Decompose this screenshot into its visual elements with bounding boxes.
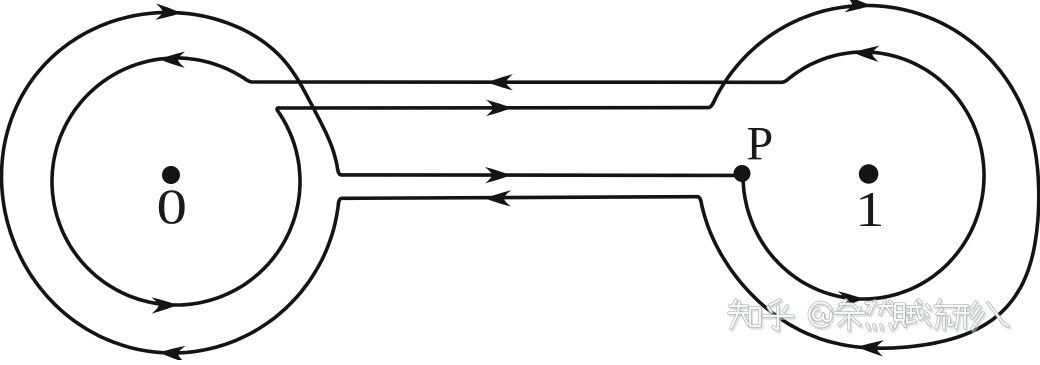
wire second line rightward — [279, 102, 714, 108]
wire outer loop around 1 — [697, 6, 1039, 349]
arrow on line1 leftward — [487, 74, 513, 90]
wire inner loop around 1 starting at P — [743, 52, 984, 299]
wire outer loop around 0 — [2, 13, 342, 354]
node P dot — [734, 165, 751, 182]
arrow on line3 rightward — [485, 167, 511, 183]
label 0 — [156, 179, 187, 235]
svg-text:1: 1 — [855, 181, 885, 237]
arrow outer-left bottom leftward — [159, 344, 186, 362]
svg-text:0: 0 — [156, 179, 187, 235]
arrow on line4 leftward — [485, 190, 511, 206]
label 1 — [855, 181, 885, 237]
wire inner loop around 0 — [52, 58, 300, 305]
arrow inner-left bottom rightward — [151, 297, 177, 314]
arrow on line2 rightward — [486, 100, 512, 116]
wire top return line leftward — [246, 79, 782, 82]
wire lower return line leftward — [338, 197, 697, 205]
arrow outer-left top rightward — [155, 3, 182, 21]
node 1 dot — [859, 164, 879, 184]
arrow outer-right bottom leftward — [857, 339, 884, 357]
watermark Zhihu @ user — [729, 300, 1010, 332]
wire line into P rightward — [341, 173, 743, 177]
node 0 dot — [162, 166, 180, 184]
svg-text:P: P — [747, 118, 774, 171]
arrow outer-right top rightward — [845, 0, 872, 14]
arrow inner-right top leftward — [853, 44, 880, 62]
arrow inner-left top leftward — [159, 51, 185, 68]
arrow inner-right bottom rightward — [838, 291, 864, 308]
